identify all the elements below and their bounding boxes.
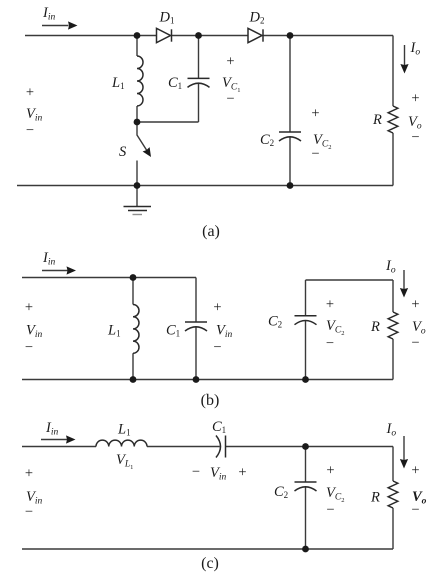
svg-text:+: + — [326, 463, 334, 479]
svg-text:Io: Io — [386, 421, 397, 439]
svg-text:L1: L1 — [117, 422, 131, 438]
svg-text:−: − — [25, 504, 33, 520]
svg-text:C1: C1 — [166, 323, 180, 339]
svg-text:−: − — [226, 91, 234, 107]
svg-text:C2: C2 — [268, 314, 282, 330]
svg-text:C1: C1 — [212, 419, 226, 435]
svg-text:R: R — [370, 319, 380, 335]
svg-text:D1: D1 — [159, 10, 175, 26]
svg-text:−: − — [411, 335, 419, 351]
svg-text:L1: L1 — [111, 75, 125, 91]
svg-text:−: − — [326, 336, 334, 352]
svg-text:−: − — [26, 123, 34, 139]
svg-text:+: + — [411, 463, 419, 479]
svg-text:−: − — [25, 340, 33, 356]
svg-text:(b): (b) — [201, 392, 220, 409]
svg-text:C1: C1 — [168, 75, 182, 91]
svg-text:(a): (a) — [202, 223, 220, 240]
svg-text:C2: C2 — [274, 484, 288, 500]
svg-text:−: − — [326, 502, 334, 518]
svg-text:VL1: VL1 — [116, 452, 133, 471]
svg-text:+: + — [411, 297, 419, 313]
svg-text:D2: D2 — [249, 10, 265, 26]
svg-text:R: R — [372, 112, 382, 128]
svg-text:−: − — [411, 502, 419, 518]
svg-text:Io: Io — [385, 258, 396, 276]
svg-text:Vin: Vin — [216, 323, 232, 341]
svg-text:(c): (c) — [201, 555, 219, 572]
svg-text:C2: C2 — [260, 132, 274, 148]
svg-text:−: − — [213, 340, 221, 356]
svg-text:−: − — [411, 130, 419, 146]
svg-text:+: + — [226, 54, 234, 70]
svg-text:Vin: Vin — [26, 323, 42, 341]
svg-text:+: + — [25, 300, 33, 316]
svg-text:Io: Io — [410, 40, 421, 58]
svg-text:S: S — [119, 144, 127, 160]
svg-text:R: R — [370, 490, 380, 506]
svg-text:VC2: VC2 — [326, 318, 344, 337]
svg-text:+: + — [238, 465, 246, 481]
svg-text:Iin: Iin — [42, 250, 55, 268]
svg-text:+: + — [26, 85, 34, 101]
svg-text:−: − — [311, 146, 319, 162]
svg-text:Vo: Vo — [412, 319, 426, 337]
svg-text:+: + — [25, 466, 33, 482]
svg-text:+: + — [326, 297, 334, 313]
svg-text:+: + — [411, 91, 419, 107]
svg-text:Iin: Iin — [45, 420, 58, 438]
svg-text:Iin: Iin — [42, 5, 55, 23]
svg-text:Vin: Vin — [26, 106, 42, 124]
svg-text:L1: L1 — [107, 323, 121, 339]
svg-text:+: + — [311, 106, 319, 122]
svg-text:Vin: Vin — [210, 465, 226, 483]
svg-text:+: + — [213, 300, 221, 316]
svg-text:−: − — [192, 464, 200, 480]
